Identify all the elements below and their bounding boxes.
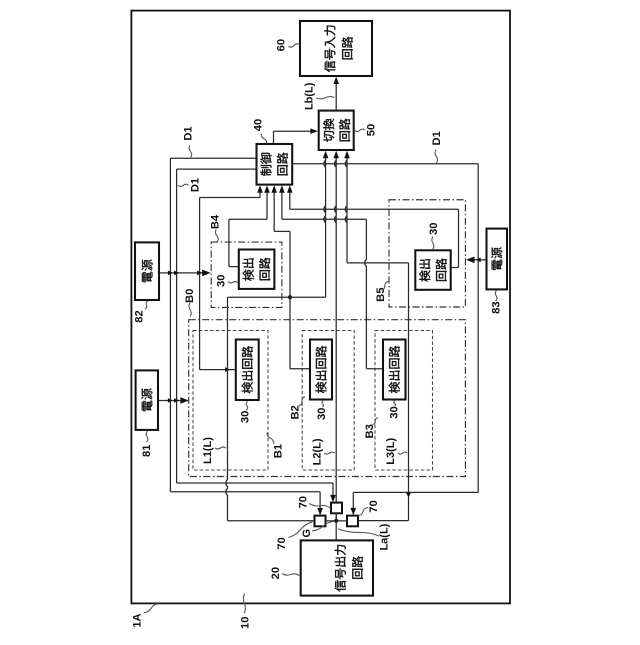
junction dot on L1 line <box>288 295 292 299</box>
svg-text:B4: B4 <box>210 214 222 229</box>
svg-text:L1(L): L1(L) <box>202 437 214 464</box>
module region B0 <box>189 320 466 477</box>
terminal 70 T1 <box>315 516 326 527</box>
svg-text:G: G <box>301 529 313 538</box>
wire c: L2 detector feed to 40 <box>273 191 275 232</box>
control circuit 40 <box>257 144 293 185</box>
terminal 70 T3 <box>347 516 358 527</box>
wire from power 82 <box>159 272 203 274</box>
svg-text:30: 30 <box>388 406 400 418</box>
svg-text:D1: D1 <box>183 126 195 140</box>
module region B5 <box>389 200 465 307</box>
detection circuit 30 in L2 <box>310 340 332 400</box>
svg-text:20: 20 <box>270 567 282 579</box>
G bus T1-T3 <box>326 520 348 522</box>
svg-text:70: 70 <box>276 537 288 549</box>
svg-text:B3: B3 <box>364 424 376 438</box>
detection circuit 30 in B5 <box>415 250 450 289</box>
signal input circuit 60 <box>300 21 372 76</box>
branch region B3 (L3) <box>375 331 433 471</box>
crossing arrow on L3 line <box>406 493 411 498</box>
svg-text:B2: B2 <box>290 405 302 419</box>
module region B4 <box>211 242 282 307</box>
wire a: L1 detector feed to 40 <box>259 191 261 198</box>
wire e: B5 detector feed to 40 <box>289 191 291 210</box>
svg-text:30: 30 <box>316 408 328 420</box>
svg-text:1A: 1A <box>131 613 143 627</box>
wire 40 to 50 <box>273 131 275 144</box>
wire Lb(L) 50 to 60 <box>335 82 337 111</box>
svg-text:83: 83 <box>490 301 502 313</box>
svg-text:L3(L): L3(L) <box>385 438 397 465</box>
wire b: B4 detector feed to 40 <box>266 191 268 220</box>
svg-text:70: 70 <box>368 500 380 512</box>
L2 line through T2 to node G <box>335 513 337 521</box>
node G dot <box>334 519 338 523</box>
svg-text:B0: B0 <box>184 289 196 303</box>
device frame 10 <box>131 11 510 604</box>
svg-text:60: 60 <box>276 39 288 51</box>
svg-text:10: 10 <box>240 617 252 629</box>
svg-text:L2(L): L2(L) <box>311 438 323 465</box>
wire d: L3 detector feed to 40 <box>281 191 283 220</box>
svg-text:B5: B5 <box>375 288 387 302</box>
svg-text:70: 70 <box>297 496 309 508</box>
svg-text:82: 82 <box>134 310 146 322</box>
svg-text:B1: B1 <box>272 444 284 458</box>
svg-text:50: 50 <box>365 124 377 136</box>
signal output circuit 20 <box>301 540 373 595</box>
svg-text:D1: D1 <box>431 131 443 145</box>
wire from power 81 <box>158 400 181 402</box>
wire D1 left inner: 40 to terminal T2 <box>177 168 257 170</box>
power supply 81 <box>136 370 158 430</box>
terminal 70 T2 <box>331 503 342 514</box>
detection circuit 30 in B4 <box>239 250 275 289</box>
line L1(L) <box>324 156 326 298</box>
power supply 83 <box>487 229 508 290</box>
svg-text:La(L): La(L) <box>379 523 391 550</box>
wire G to signal output 20 <box>335 521 337 541</box>
svg-text:40: 40 <box>253 119 265 131</box>
branch region B2 (L2) <box>302 331 354 471</box>
power supply 82 <box>135 242 159 300</box>
line L2(L) <box>335 156 337 521</box>
detection circuit 30 in L1 <box>236 340 259 401</box>
switching circuit 50 <box>319 111 354 150</box>
line L3(L) <box>345 156 347 263</box>
wire D1 left outer: 40 to terminal T1 <box>170 157 256 159</box>
svg-text:30: 30 <box>216 275 228 287</box>
svg-text:30: 30 <box>240 411 252 423</box>
svg-text:Lb(L): Lb(L) <box>304 82 316 110</box>
svg-text:D1: D1 <box>189 178 201 192</box>
detection circuit 30 in L3 <box>383 340 406 400</box>
branch region B1 (L1) <box>193 331 268 471</box>
svg-text:81: 81 <box>141 444 153 456</box>
wire from power 83 <box>473 259 487 261</box>
wire D1 right: 40 to terminal T3 <box>292 163 478 165</box>
svg-text:30: 30 <box>428 223 440 235</box>
